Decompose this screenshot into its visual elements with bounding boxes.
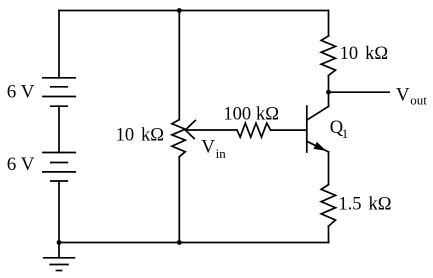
svg-text:100: 100 (223, 104, 251, 124)
wire 100k to base (271, 129, 307, 131)
wire left rail lower (58, 181, 60, 243)
svg-text:10: 10 (116, 126, 135, 146)
wire middle rail upper (178, 11, 180, 120)
wire right rail top (328, 11, 330, 36)
wire bottom rail (59, 242, 329, 244)
svg-text:kΩ: kΩ (365, 44, 388, 64)
svg-text:V: V (396, 85, 410, 106)
node bottom middle junction (177, 240, 182, 245)
resistor R3 10k zigzag (321, 36, 335, 76)
wire wiper to 100k (185, 129, 237, 131)
wire 10k to collector node (328, 76, 330, 93)
wire left rail upper (58, 11, 60, 78)
battery B2 6V (43, 153, 75, 182)
wire top rail (59, 10, 329, 12)
wire Vout (329, 91, 390, 93)
svg-text:1.5: 1.5 (338, 194, 361, 214)
svg-text:kΩ: kΩ (369, 194, 392, 214)
node collector Vout junction (326, 90, 331, 95)
svg-text:V: V (201, 137, 215, 158)
svg-text:6 V: 6 V (7, 81, 35, 102)
svg-text:out: out (410, 93, 427, 108)
ground (44, 243, 75, 271)
svg-text:10: 10 (340, 44, 359, 64)
wire left rail middle (58, 106, 60, 152)
battery B1 6V (43, 78, 75, 106)
potentiometer R1 10k zigzag (172, 120, 185, 157)
resistor R4 1.5k zigzag (321, 185, 335, 227)
svg-text:kΩ: kΩ (256, 104, 279, 124)
transistor Q1 (307, 92, 329, 184)
node bottom left junction (57, 240, 62, 245)
svg-text:1: 1 (342, 126, 349, 141)
svg-text:kΩ: kΩ (141, 126, 164, 146)
wire middle rail lower (178, 157, 180, 243)
resistor R2 100k zigzag (237, 123, 271, 137)
svg-text:6 V: 6 V (7, 154, 35, 175)
potentiometer wiper arrow (185, 121, 195, 139)
node top middle junction (177, 8, 182, 13)
wire right rail bottom (328, 226, 330, 242)
svg-text:in: in (216, 146, 227, 161)
